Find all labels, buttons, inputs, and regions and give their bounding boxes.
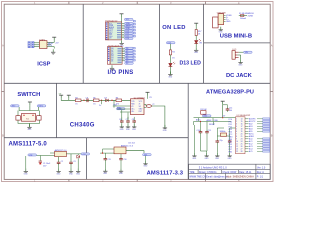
ATMEGA ground 4 <box>228 153 233 160</box>
ATMEGA junction dots <box>200 117 223 122</box>
AMS3 ground C16 <box>119 168 124 175</box>
CH340G mid wires <box>113 104 131 112</box>
DC JACK symbol <box>232 51 239 60</box>
I/O PINS net flag column 1 <box>133 20 135 37</box>
USB connector shell <box>213 17 219 28</box>
svg-text:C2: C2 <box>61 161 63 163</box>
ON LED wire 1 <box>195 26 197 29</box>
CH340G top rail wire <box>61 98 130 100</box>
D13 LED ground <box>168 72 173 79</box>
CH340G ground C8 <box>132 124 137 131</box>
CH340G capacitor C8 <box>132 119 136 124</box>
AMS3 output wire <box>126 151 144 153</box>
CH340G ground C7 <box>126 124 131 131</box>
ATMEGA right flag wires <box>257 119 263 152</box>
svg-text:Ver: 1.0: Ver: 1.0 <box>257 167 266 170</box>
AMS3 wire box to C16 <box>120 154 122 157</box>
svg-text:UD-: UD- <box>131 111 134 113</box>
CH340G gnd wire right <box>153 106 165 127</box>
SWITCH wire sides <box>18 111 40 116</box>
border tick bottom 2 <box>136 179 138 181</box>
ICSP wires right <box>47 42 54 48</box>
svg-text:GND: GND <box>226 21 231 23</box>
svg-text:I/O PINS: I/O PINS <box>108 70 134 76</box>
CH340G wires pill to caps <box>114 100 128 119</box>
I/O PINS ground group2 <box>110 65 114 70</box>
SWITCH net label right <box>37 105 46 108</box>
AMS5 capacitor C1 polarized <box>39 156 51 168</box>
border tick bottom 3 <box>205 179 207 181</box>
section divider horizontal low <box>4 137 188 139</box>
svg-text:C16 104: C16 104 <box>128 142 135 144</box>
svg-text:AVCC: AVCC <box>196 119 202 122</box>
svg-text:Y2: Y2 <box>152 104 154 106</box>
svg-text:B: B <box>271 134 273 138</box>
svg-text:Date: 15.11: Date: 15.11 <box>239 171 252 174</box>
svg-text:B: B <box>2 134 4 138</box>
svg-text:D1: D1 <box>111 61 113 63</box>
title block row line 2 <box>189 172 271 174</box>
svg-text:P: 1/1: P: 1/1 <box>257 176 264 179</box>
title block cell divider r2a <box>197 170 199 174</box>
AMS5 regulator U3 <box>55 149 68 157</box>
border tick top 3 <box>205 2 207 5</box>
svg-text:Email: ddw@tme.cn: Email: ddw@tme.cn <box>206 176 228 179</box>
svg-text:RST: RST <box>139 111 142 113</box>
ICSP wires left <box>34 43 39 47</box>
svg-text:R4: R4 <box>75 97 77 99</box>
svg-text:28: 28 <box>241 151 243 153</box>
AMS5 wire C2 gnd <box>58 165 60 169</box>
title block cell divider r3a <box>205 173 207 179</box>
CH340G capacitor C6 <box>119 119 124 124</box>
ATMEGA power wire <box>222 104 224 117</box>
DC JACK ground wire <box>240 55 242 60</box>
ATMEGA ground 1 <box>192 153 197 160</box>
svg-text:C9: C9 <box>86 97 88 99</box>
svg-text:A: A <box>271 44 273 48</box>
ICSP net labels <box>48 42 59 47</box>
ATMEGA capacitor C14 <box>223 105 233 112</box>
ATMEGA ground 2 <box>205 153 210 160</box>
ATMEGA capacitor C11 <box>205 130 211 135</box>
AMS5 net label VIN <box>28 154 37 157</box>
AMS5 diode D1 <box>77 155 80 158</box>
svg-text:C6: C6 <box>119 119 121 121</box>
svg-text:XTAL: XTAL <box>214 119 218 122</box>
svg-text:ICSP: ICSP <box>37 61 50 67</box>
svg-text:C3: C3 <box>73 161 75 163</box>
svg-text:104: 104 <box>229 110 232 112</box>
CH340G resistor R6 <box>116 97 122 105</box>
SWITCH ground <box>27 124 32 131</box>
D13 LED resistor R2 <box>169 50 175 55</box>
ATMEGA extra net labels <box>209 119 218 126</box>
svg-text:SCK: SCK <box>48 45 53 47</box>
AMS3 net label 3V3 <box>143 154 152 157</box>
ATMEGA right pin labels upper <box>249 118 256 134</box>
ATMEGA crystal caps C12 C13 <box>216 136 232 144</box>
svg-text:DC JACK: DC JACK <box>226 73 253 79</box>
AMS5 wire C3 gnd <box>70 165 72 169</box>
I/O PINS header body 2 <box>110 47 122 65</box>
I/O PINS connector strip 2 <box>107 47 110 65</box>
ATMEGA gnd wire 4 <box>229 144 231 153</box>
I/O PINS power flag group1 <box>120 14 124 17</box>
svg-text:USB MINI-B: USB MINI-B <box>220 34 252 40</box>
ATMEGA right pin stubs <box>245 119 249 152</box>
ATMEGA gnd wire 1 <box>193 125 195 153</box>
border tick right <box>270 91 273 93</box>
svg-text:C16: C16 <box>123 159 126 161</box>
svg-text:D13 LED: D13 LED <box>180 61 202 67</box>
section divider SWITCH/CH340G <box>55 83 57 137</box>
ON LED wire 2 <box>195 36 197 41</box>
ICSP ground <box>51 49 55 54</box>
AMS5 capacitor C2 <box>57 161 63 165</box>
svg-text:Check: DDW: Check: DDW <box>222 171 237 174</box>
AMS5 input bus <box>37 153 55 156</box>
ATMEGA right pin labels lower <box>249 138 253 154</box>
ATMEGA left pin labels <box>229 119 234 154</box>
AMS5 input ground <box>24 169 29 176</box>
svg-text:Rev: A: Rev: A <box>257 171 264 174</box>
svg-text:AMS1117-5.0: AMS1117-5.0 <box>9 141 48 147</box>
CH340G power flag V3 <box>146 92 152 99</box>
ATMEGA resistor R3 <box>200 109 207 114</box>
ATMEGA capacitor C10 <box>197 130 203 135</box>
svg-text:D+: D+ <box>99 105 101 107</box>
I/O PINS net flag column 2 <box>133 47 135 61</box>
CH340G net label mid pill <box>116 108 125 111</box>
AMS5 ground C2 <box>56 169 61 176</box>
ON LED diode LED1 <box>194 39 202 45</box>
title block row line 1 <box>189 169 271 171</box>
ATMEGA right net flags <box>263 118 270 152</box>
D13 LED wire 2 <box>169 55 171 63</box>
I/O PINS net label pills 2 <box>125 47 134 65</box>
I/O PINS net label pills 1 <box>124 18 133 40</box>
AMS3 capacitor C15 <box>104 157 111 161</box>
USB ground <box>219 27 224 34</box>
CH340G capacitor C9 <box>85 97 89 102</box>
border tick bottom 1 <box>68 179 70 181</box>
SWITCH wire power down <box>29 105 31 110</box>
USB pin block <box>218 14 226 25</box>
svg-text:ATMEGA328P-PU: ATMEGA328P-PU <box>206 90 254 96</box>
AMS3 capacitor C16 <box>119 157 126 161</box>
title block cell divider r2c <box>237 170 239 174</box>
AMS5 wire D1 gnd <box>77 158 79 168</box>
ATMEGA crystal Y1 <box>217 130 229 136</box>
section divider AMS5/AMS3 <box>86 138 88 180</box>
DC JACK wire gnd <box>237 54 240 56</box>
svg-text:Drawn: CH340G: Drawn: CH340G <box>199 171 217 174</box>
SWITCH power flag <box>28 102 32 105</box>
ATMEGA right mid labels <box>249 133 255 139</box>
AMS3 wire C15 gnd <box>104 161 106 168</box>
ON LED power flag <box>194 23 198 26</box>
section divider IOPINS/LED <box>158 4 160 83</box>
title block cell divider r3b <box>224 173 226 179</box>
CH340G IC U2 <box>131 97 146 114</box>
svg-text:V3: V3 <box>149 97 151 99</box>
CH340G crystal Y2 <box>144 104 154 108</box>
svg-text:U2 CH340G: U2 CH340G <box>134 97 145 99</box>
CH340G cap wires <box>122 117 134 119</box>
USB net labels <box>226 15 232 23</box>
svg-text:WWW.TME.CN: WWW.TME.CN <box>189 176 206 179</box>
SWITCH pad right <box>37 116 41 120</box>
svg-text:RESET: RESET <box>209 124 216 126</box>
SWITCH pad left <box>16 116 20 120</box>
svg-text:A: A <box>2 44 4 48</box>
SWITCH button K1 <box>21 114 35 122</box>
CH340G diode D3 <box>104 97 108 101</box>
CH340G drop wire junction <box>99 100 102 107</box>
svg-text:C8: C8 <box>132 119 134 121</box>
svg-text:AREF: AREF <box>207 119 213 122</box>
svg-text:SWITCH: SWITCH <box>17 92 40 98</box>
svg-text:22: 22 <box>236 151 238 153</box>
AMS5 ground C3 <box>69 169 74 176</box>
CH340G resistor R4 <box>75 97 81 105</box>
I/O PINS wires right 2 <box>122 48 125 61</box>
section divider CH340G/ATMEGA <box>187 83 189 179</box>
SWITCH bottom rail <box>18 120 40 123</box>
ICSP connector P3 <box>28 42 34 48</box>
svg-text:AMS1117-5.0: AMS1117-5.0 <box>55 149 68 152</box>
SWITCH wire left <box>19 107 38 111</box>
svg-text:22p: 22p <box>220 140 223 142</box>
ON LED resistor R1 <box>195 30 201 36</box>
svg-text:Addr: SHENZHEN CHINA: Addr: SHENZHEN CHINA <box>226 176 254 179</box>
AMS5 capacitor C3 <box>69 161 75 165</box>
D13 LED wire 3 <box>169 67 171 74</box>
DC JACK wire VIN <box>239 51 244 53</box>
ATMEGA chip body <box>236 117 246 154</box>
I/O PINS wires right 1 <box>122 23 125 37</box>
svg-text:RST2: RST2 <box>38 106 43 108</box>
I/O PINS header body 1 <box>108 22 122 40</box>
svg-text:D2: D2 <box>126 63 128 65</box>
border tick top 1 <box>68 2 70 5</box>
ATMEGA gnd wire 3 <box>216 144 218 153</box>
I/O PINS ground between groups <box>120 40 125 47</box>
svg-text:TME: TME <box>189 171 194 174</box>
svg-text:D10: D10 <box>126 38 129 40</box>
svg-text:ON LED: ON LED <box>162 25 185 31</box>
sheet inner border <box>4 4 270 179</box>
section divider ICSP/IOPINS <box>82 4 84 83</box>
ATMEGA gnd wire 2 <box>201 134 208 153</box>
AMS3 regulator U4 <box>114 144 134 153</box>
section divider USB/DCJACK <box>204 42 271 44</box>
CH340G capacitor C7 <box>126 119 130 124</box>
AMS3 junction dot <box>102 152 103 153</box>
svg-text:C15: C15 <box>108 159 111 161</box>
svg-text:RXD: RXD <box>117 108 122 110</box>
ON LED wire 3 <box>195 44 197 48</box>
AMS5 input ground wire <box>25 156 27 171</box>
svg-text:TXD: TXD <box>113 104 117 106</box>
DC JACK ground <box>238 60 243 67</box>
D13 LED wire 1 <box>169 44 171 50</box>
I/O PINS wire power to header1 <box>121 17 123 22</box>
svg-text:3 1 Arduino UNO R3 1.0: 3 1 Arduino UNO R3 1.0 <box>199 166 228 170</box>
AMS3 wire gnd right <box>145 156 147 161</box>
title block frame <box>189 164 271 179</box>
SWITCH net label RESET left <box>11 105 20 108</box>
AMS5 output bus <box>59 154 83 161</box>
ICSP wire power <box>53 40 55 42</box>
svg-text:C11: C11 <box>208 130 211 132</box>
svg-text:AMS1117-3.3: AMS1117-3.3 <box>121 144 134 147</box>
svg-text:R6: R6 <box>116 97 118 99</box>
ICSP header J-ISP <box>39 39 47 48</box>
CH340G power flag 5V <box>59 94 63 99</box>
ATMEGA wire xtal to chip <box>217 128 235 130</box>
ATMEGA wire bus mid <box>194 122 232 131</box>
svg-text:SCL: SCL <box>126 19 130 21</box>
CH340G resistor R5 <box>93 97 99 105</box>
svg-text:16MHz: 16MHz <box>220 131 226 133</box>
AMS5 ground D1 <box>76 169 81 176</box>
I/O PINS connector strip 1 <box>105 22 108 40</box>
svg-text:AC5: AC5 <box>249 150 253 153</box>
DC JACK net label VIN <box>244 51 253 54</box>
USB fuse wire <box>239 15 247 17</box>
CH340G junction dots top <box>83 100 112 101</box>
section divider horizontal mid <box>4 82 270 84</box>
svg-text:C7: C7 <box>126 119 128 121</box>
CH340G ground right <box>163 125 168 132</box>
title block cell divider r2b <box>221 170 223 174</box>
svg-text:500mA: 500mA <box>240 17 246 20</box>
svg-text:R5: R5 <box>93 97 95 99</box>
sheet outer border <box>2 2 274 182</box>
border tick left <box>2 91 5 93</box>
ATMEGA net label RESET <box>202 115 211 118</box>
svg-text:CH340G: CH340G <box>70 122 95 128</box>
border tick top 2 <box>136 2 138 5</box>
svg-text:R3 10K: R3 10K <box>200 109 207 111</box>
CH340G power flag VUSB <box>67 95 71 98</box>
svg-text:PB0: PB0 <box>229 151 232 153</box>
D13 LED diode LED2 <box>169 62 176 67</box>
svg-text:ICSP1: ICSP1 <box>39 39 46 41</box>
svg-text:C10: C10 <box>197 130 200 132</box>
svg-text:D3: D3 <box>104 97 106 99</box>
svg-text:D9: D9 <box>109 38 111 40</box>
CH340G ground C6 <box>120 124 125 131</box>
AMS3 input wire <box>100 149 114 157</box>
AMS5 output label +5V <box>81 153 90 156</box>
title block cell divider ver <box>255 164 257 179</box>
section divider LED/USB <box>203 4 205 83</box>
D13 LED net label <box>166 42 175 45</box>
ATMEGA wire bus top <box>194 118 237 121</box>
ATMEGA ground 3 <box>215 153 220 160</box>
AMS3 ground C15 <box>103 168 108 175</box>
svg-text:XUSB: XUSB <box>248 16 254 18</box>
ICSP power flag +5V <box>52 37 56 40</box>
SWITCH wire gnd <box>29 123 31 126</box>
ON LED ground <box>194 47 199 54</box>
AMS3 ground right <box>143 161 148 168</box>
AMS3 wire C16 gnd <box>120 161 122 168</box>
svg-text:AMS1117-3.3: AMS1117-3.3 <box>147 170 184 176</box>
ATMEGA power flag <box>221 101 225 104</box>
